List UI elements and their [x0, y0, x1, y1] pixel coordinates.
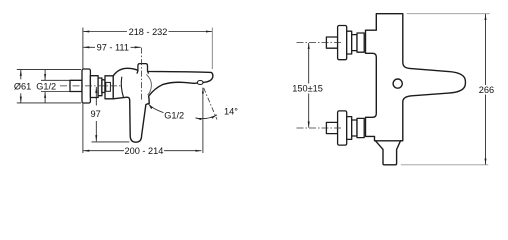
- svg-text:Ø61: Ø61: [14, 82, 31, 92]
- svg-text:97: 97: [90, 109, 100, 119]
- svg-text:150±15: 150±15: [292, 84, 323, 94]
- svg-text:97 - 111: 97 - 111: [97, 43, 129, 53]
- svg-text:14°: 14°: [224, 106, 238, 116]
- svg-text:G1/2: G1/2: [164, 111, 184, 121]
- svg-text:G1/2: G1/2: [36, 82, 56, 92]
- svg-text:200 - 214: 200 - 214: [124, 146, 163, 156]
- svg-text:218 - 232: 218 - 232: [129, 27, 168, 37]
- svg-text:266: 266: [479, 85, 494, 95]
